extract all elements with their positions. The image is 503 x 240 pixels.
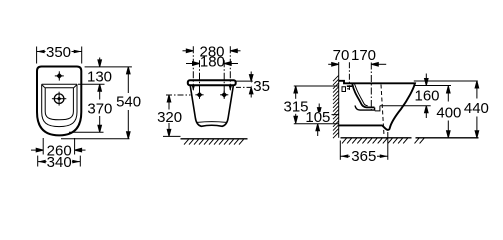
plan outer outline [37,67,81,136]
dimension 35 extension lines [236,80,253,82]
dimension 320 dim line and arrows [167,95,171,136]
svg-text:370: 370 [87,100,112,117]
front ground hatch [184,139,244,144]
dimension 540 lower arrow [127,110,131,139]
svg-text:540: 540 [116,93,141,110]
extension line D1 [310,114,339,116]
dimension 260 arrows [31,148,86,152]
side bowl section outer curve [352,84,374,108]
dimension 320 top extension (dash-dot) [166,94,191,96]
extension line rim back right [78,83,105,85]
dimension 260 extension lines [43,138,74,155]
front fixing hole markers [195,91,228,99]
front centerlines 180 [200,60,225,92]
svg-text:320: 320 [157,109,182,126]
dimension 340 text [47,154,73,171]
plan inner rim line [42,84,77,126]
dimension 35 arrows [249,72,253,98]
side floor hatch right of gap [415,138,425,143]
dimension 130 upper arrow [98,58,102,67]
side bowl bottom lower line [355,106,375,111]
dimension 280 arrows [183,49,241,53]
dimension 400 upper arrow [447,86,451,102]
side drain centerline [370,63,372,112]
dimension 440 upper arrow [475,81,479,99]
dimension 365 extension lines [340,132,388,160]
svg-text:170: 170 [351,47,376,64]
dimension 340 arrows [38,160,81,164]
svg-text:70: 70 [333,47,350,64]
extension line D2 [294,123,339,125]
svg-text:35: 35 [253,78,270,95]
dimension 400 lower arrow [447,121,451,138]
extension line plan top right [85,66,132,68]
side floor hatch [342,138,408,143]
svg-text:180: 180 [200,54,225,71]
plan drain target [54,94,64,104]
dimension 350 extension lines [37,47,82,64]
extension line 320 bottom [163,135,181,137]
front centerlines 280 [193,46,230,90]
side bowl section inner curve [354,84,367,106]
side floor line right segment [416,137,479,139]
extension line A (440 top) [414,80,478,82]
dimension 350 arrows [37,50,82,54]
svg-text:340: 340 [47,154,72,171]
front centerline arrowheads 280 [192,86,232,91]
dimension 315 upper arrow [294,86,298,99]
extension line 370 bottom [69,131,104,133]
dimension 350 text [46,44,72,61]
dimension 370 lower arrow [98,116,102,132]
svg-text:130: 130 [87,68,112,85]
dimension 180 text [200,54,225,71]
svg-text:350: 350 [46,44,71,61]
svg-text:160: 160 [414,88,439,105]
dimension 130/370 shared arrow [98,84,102,99]
front body outline [190,86,233,126]
dimension 160 upper arrow [425,74,429,86]
dimension 105 text [305,109,331,126]
front body foot line [198,121,227,124]
front rim band [188,80,236,85]
dimension 365 arrows [340,154,388,158]
dimension 105 upper arrow [317,104,321,115]
dimension 105 lower arrow [316,124,320,136]
side tap centerline [348,62,350,90]
extension line C (160 bottom) [380,105,431,107]
dimension 180 arrows [186,62,238,66]
front ground line [181,138,248,140]
dimension 320 text [156,109,183,126]
dimension 340 extension lines [38,156,81,167]
dimension 440 lower arrow [475,117,479,138]
plan tap hole cross [55,71,64,80]
wall face line [338,62,340,138]
side hidden drain dashed line [381,85,384,136]
wall hatch [333,76,339,139]
side tap recess detail [342,86,352,91]
side floor line [341,137,412,139]
dimension 365 text [350,148,377,165]
dimension 70/170 arrows [328,63,386,67]
extension line 540 bottom [61,138,130,140]
dimension 540 upper arrow [127,67,131,93]
extension line B (400 top) [414,85,451,87]
left extension top [294,85,339,87]
svg-text:365: 365 [351,148,376,165]
side bidet top and front outline [339,81,415,130]
dimension 315 lower arrow [294,114,298,124]
side drain step [375,106,380,111]
dimension 160 lower arrow [425,106,429,118]
plan bowl line [42,85,76,120]
svg-text:400: 400 [436,105,461,122]
svg-text:440: 440 [464,100,489,117]
